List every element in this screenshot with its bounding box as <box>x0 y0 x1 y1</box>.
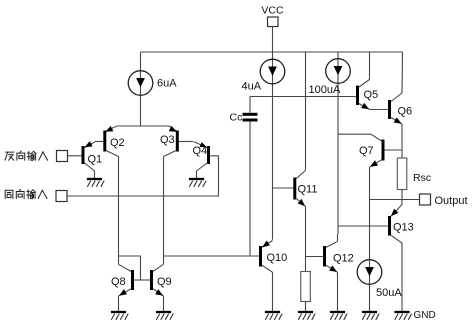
label Q3 <box>160 134 175 146</box>
ground under Q12 <box>330 312 347 320</box>
svg-text:Output: Output <box>435 195 468 207</box>
transistor Q9 <box>152 264 164 296</box>
wire noninverting input to Q4 base <box>67 156 219 196</box>
wire Q11 emitter down <box>305 207 307 272</box>
label Q13 <box>393 222 414 234</box>
node Output terminal <box>420 194 431 205</box>
svg-text:Q9: Q9 <box>157 276 172 288</box>
label Q7 <box>359 145 374 157</box>
label Q10 <box>267 252 288 264</box>
label Q12 <box>333 253 354 265</box>
svg-text:Rsc: Rsc <box>413 172 431 184</box>
transistor Q7 <box>370 134 403 167</box>
wire Q6 emitter down to Rsc <box>401 124 403 158</box>
label VCC <box>261 5 284 17</box>
svg-text:Q12: Q12 <box>333 253 354 265</box>
label 50uA <box>376 287 402 299</box>
svg-text:Q13: Q13 <box>393 222 414 234</box>
ground under R1 <box>298 312 315 320</box>
wire Q8 emitter down <box>118 296 120 311</box>
current source I4 50uA <box>357 260 382 285</box>
svg-text:Q10: Q10 <box>267 252 288 264</box>
label Q11 <box>298 184 318 196</box>
ground under Q9 <box>156 312 173 320</box>
transistor Q2 <box>95 126 119 157</box>
label inverting input <box>5 151 48 160</box>
wire Q7 collector to 100uA column <box>338 133 371 135</box>
transistor Q13 <box>338 200 403 312</box>
current source I2 4uA <box>260 59 285 84</box>
transistor Q10 <box>261 241 273 312</box>
svg-text:Cc: Cc <box>230 112 243 124</box>
label Q1 <box>88 154 103 166</box>
label Q2 <box>110 137 125 149</box>
transistor Q3 <box>164 126 194 157</box>
transistor Q4 <box>194 142 219 179</box>
label Output <box>435 195 468 207</box>
label 4uA <box>242 81 262 93</box>
node noninverting input terminal <box>56 191 67 202</box>
svg-text:Q11: Q11 <box>298 184 318 196</box>
wire Q5 emitter to Q6 base <box>370 109 389 111</box>
svg-text:Q7: Q7 <box>359 145 374 157</box>
wire VCC top rail <box>141 51 403 53</box>
wire Q5 collector up <box>369 52 371 80</box>
node VCC terminal <box>268 17 279 52</box>
svg-text:4uA: 4uA <box>242 81 262 93</box>
svg-text:VCC: VCC <box>261 5 284 17</box>
label 6uA <box>157 78 177 90</box>
node inverting input terminal <box>57 151 68 162</box>
resistor Rsc <box>397 158 407 190</box>
label Cc <box>230 112 243 124</box>
ground under Q13 <box>394 312 411 320</box>
svg-text:6uA: 6uA <box>157 78 177 90</box>
label Q5 <box>364 89 379 101</box>
wire Q5 base line <box>250 97 356 113</box>
svg-text:Q5: Q5 <box>364 89 379 101</box>
wire Q12 collector up <box>337 234 339 241</box>
svg-text:100uA: 100uA <box>309 84 341 96</box>
wire Q9 emitter down <box>163 296 165 311</box>
label Q8 <box>111 276 126 288</box>
ground under Q8 <box>111 312 128 320</box>
label 100uA <box>309 84 341 96</box>
wire Q10 base line <box>164 255 260 257</box>
wire 6uA drop <box>140 52 142 126</box>
wire input-pair emitter tent <box>105 126 178 132</box>
wire Q2 collector to Q8 <box>118 157 120 265</box>
transistor Q5 <box>358 80 370 110</box>
label Q4 <box>193 145 208 157</box>
current source I1 6uA <box>128 71 153 96</box>
wire Q7 emitter down to 50uA <box>369 167 371 311</box>
wire Q12 emitter down <box>337 272 339 311</box>
svg-text:GND: GND <box>414 310 436 321</box>
current source I3 100uA <box>326 59 351 84</box>
wire Q8 base-collector tie <box>119 256 141 280</box>
label GND <box>414 310 436 321</box>
wire 100uA column <box>337 52 339 234</box>
ground under Q10 <box>265 312 282 320</box>
ground under Q1 <box>87 179 104 187</box>
resistor R1 <box>301 272 311 312</box>
wire output line <box>370 199 420 201</box>
transistor Q1 <box>68 141 96 178</box>
label noninverting input <box>5 189 47 198</box>
transistor Q8 <box>119 264 151 296</box>
label Q6 <box>398 106 413 118</box>
transistor Q12 <box>306 241 338 272</box>
svg-text:Q4: Q4 <box>193 145 208 157</box>
wire Q3 collector to Q9 <box>163 157 165 265</box>
transistor Q6 <box>390 93 403 124</box>
capacitor Cc <box>243 114 258 256</box>
transistor Q11 <box>273 171 306 207</box>
svg-text:Q1: Q1 <box>88 154 103 166</box>
wire Q6 collector up <box>401 52 404 93</box>
label Rsc <box>413 172 431 184</box>
svg-text:Q3: Q3 <box>160 134 175 146</box>
svg-text:50uA: 50uA <box>376 287 402 299</box>
svg-text:Q8: Q8 <box>111 276 126 288</box>
wire Q11 collector column <box>305 52 307 171</box>
svg-text:Q2: Q2 <box>110 137 125 149</box>
wire Rsc bottom to output line <box>401 190 403 200</box>
label Q9 <box>157 276 172 288</box>
ground under Q4 <box>189 179 206 187</box>
svg-text:Q6: Q6 <box>398 106 413 118</box>
wire 4uA column <box>272 52 274 240</box>
ground under 50uA <box>362 312 379 320</box>
